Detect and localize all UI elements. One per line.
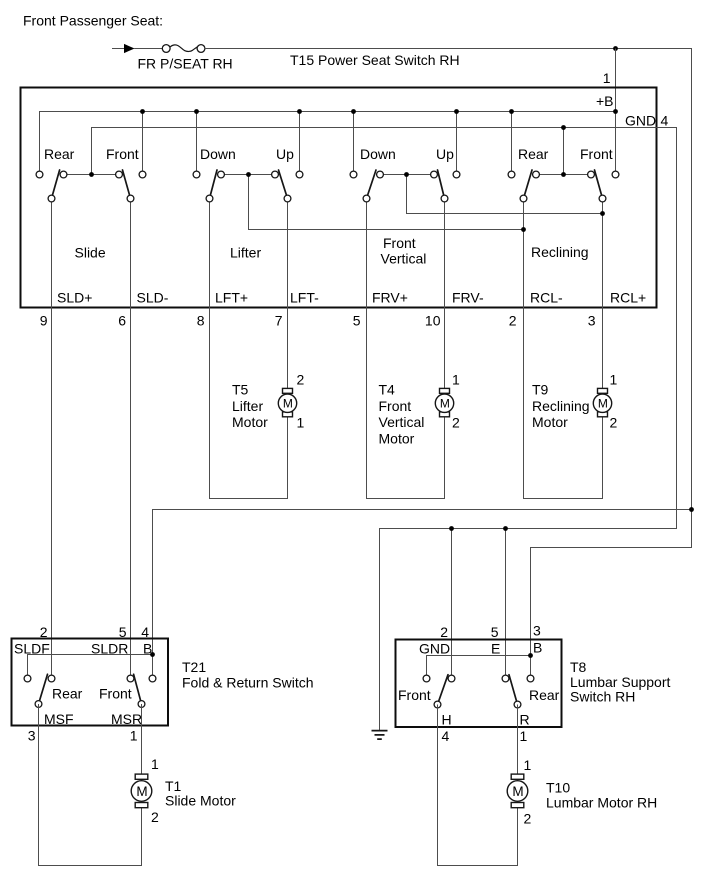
junction: T21 B bus to pin 4 wire (150, 652, 155, 657)
svg-text:Front: Front (106, 146, 139, 162)
svg-text:3: 3 (588, 313, 596, 329)
wire: FRV- pin 10 to front vertical motor top (444, 199, 446, 389)
wire: +B rail from fuse to right edge, down right side, to T8 pin 3 B (205, 49, 692, 676)
slide switch contacts and levers (36, 170, 146, 202)
wire: battery feed from arrow to fuse (112, 48, 162, 50)
switch T21 outline box (12, 639, 169, 726)
svg-text:MSR: MSR (111, 711, 142, 727)
svg-text:9: 9 (40, 313, 48, 329)
svg-text:Up: Up (276, 146, 294, 162)
svg-text:Lumbar Motor RH: Lumbar Motor RH (546, 795, 657, 811)
svg-text:M: M (512, 784, 523, 799)
junction: tap on +B right rail (689, 507, 694, 512)
svg-text:Rear: Rear (529, 687, 560, 703)
wire: T8 internal B bus (427, 656, 531, 676)
svg-text:RCL+: RCL+ (610, 290, 646, 306)
svg-text:FRV+: FRV+ (372, 290, 408, 306)
svg-text:2: 2 (452, 415, 460, 431)
svg-text:T9: T9 (532, 382, 549, 398)
wire: reclining Rear contact feeder (511, 112, 513, 175)
svg-text:2: 2 (524, 811, 532, 827)
svg-text:FR P/SEAT RH: FR P/SEAT RH (138, 56, 233, 72)
junction: GND line to T8 pin 5 (503, 526, 508, 531)
svg-text:2: 2 (40, 624, 48, 640)
ground symbol (372, 731, 388, 740)
motor T1 Slide Motor (131, 774, 152, 808)
fuse FR P/SEAT RH (162, 45, 205, 53)
svg-text:Down: Down (360, 146, 396, 162)
svg-text:LFT+: LFT+ (215, 290, 248, 306)
svg-text:4: 4 (661, 112, 669, 128)
switch T8 outline box (396, 640, 562, 728)
svg-text:Front: Front (99, 686, 132, 702)
svg-text:Slide: Slide (75, 245, 106, 261)
svg-text:Front Passenger Seat:: Front Passenger Seat: (23, 13, 163, 29)
svg-text:E: E (491, 641, 500, 657)
wire: lifter common link to RCL- node (249, 175, 524, 230)
svg-text:Front: Front (580, 146, 613, 162)
reclining switch contacts and levers (508, 170, 619, 202)
front vertical switch contacts and levers (350, 170, 460, 202)
svg-text:Slide Motor: Slide Motor (165, 793, 236, 809)
wire: SLD- to pin 6 down to T21 SLDR (130, 199, 132, 676)
wire: lifter switch common bar (221, 174, 275, 176)
wire: front vertical switch common bar (380, 174, 434, 176)
wire: slide switch common bar (64, 174, 120, 176)
svg-text:H: H (442, 712, 452, 728)
motor T4 Front Vertical Motor (435, 388, 453, 416)
svg-text:T15 Power Seat Switch RH: T15 Power Seat Switch RH (290, 52, 460, 68)
wire: FRV+ pin 5 loop to front vertical motor bottom (367, 199, 445, 499)
svg-text:1: 1 (603, 70, 611, 86)
motor T9 Reclining Motor (593, 388, 611, 416)
svg-text:Motor: Motor (532, 414, 568, 430)
wire: front vertical Up contact feeder (456, 112, 458, 175)
svg-text:Motor: Motor (379, 431, 415, 447)
svg-text:GND: GND (419, 641, 450, 657)
svg-text:Rear: Rear (44, 146, 75, 162)
wire: reclining switch common bar (536, 174, 591, 176)
svg-text:1: 1 (151, 756, 159, 772)
svg-text:SLD+: SLD+ (57, 290, 92, 306)
T8 switch contacts and levers (423, 675, 534, 708)
svg-text:2: 2 (509, 313, 517, 329)
svg-text:1: 1 (297, 415, 305, 431)
svg-text:2: 2 (151, 809, 159, 825)
svg-text:GND: GND (625, 112, 656, 128)
svg-text:SLD-: SLD- (137, 290, 169, 306)
svg-text:Down: Down (200, 146, 236, 162)
svg-text:5: 5 (491, 624, 499, 640)
svg-text:MSF: MSF (44, 711, 74, 727)
svg-text:T5: T5 (232, 382, 249, 398)
junction: front vertical link on RCL+ wire (600, 211, 605, 216)
svg-text:R: R (520, 712, 530, 728)
svg-text:B: B (533, 640, 542, 656)
svg-text:1: 1 (610, 372, 618, 388)
svg-text:Lifter: Lifter (232, 398, 263, 414)
wire: MSF pin 3 loop to slide motor bottom (39, 704, 142, 866)
wire: +B feed down into switch (pin 1) (615, 49, 617, 175)
junction: +B tap on fuse line (613, 46, 618, 51)
node GND bus: exits box right edge, down right side, across to ground drop (92, 128, 677, 731)
svg-text:LFT-: LFT- (290, 290, 319, 306)
svg-text:8: 8 (197, 313, 205, 329)
arrow: power source direction (124, 44, 135, 53)
svg-text:T4: T4 (379, 382, 396, 398)
wire: SLD+ to pin 9 down to T21 SLDF (51, 199, 53, 676)
svg-text:Fold & Return Switch: Fold & Return Switch (182, 675, 314, 691)
wire: H pin 4 loop to lumbar motor bottom (438, 705, 518, 866)
switch T15 outline box (21, 88, 657, 308)
T21 switch contacts and levers (24, 674, 156, 707)
svg-text:7: 7 (275, 313, 283, 329)
svg-text:4: 4 (442, 728, 450, 744)
wire: GND to T8 pin 2 (451, 529, 453, 676)
svg-text:Vertical: Vertical (379, 414, 425, 430)
svg-text:3: 3 (533, 623, 541, 639)
wire: T21 internal B bus (28, 655, 153, 676)
wire: RCL- pin 2 loop to reclining motor bottom (524, 199, 603, 499)
svg-text:Front: Front (383, 235, 416, 251)
svg-text:Switch RH: Switch RH (570, 689, 635, 705)
junction: GND bus to reclining common (561, 125, 566, 130)
svg-text:1: 1 (130, 728, 138, 744)
svg-text:M: M (136, 784, 147, 799)
svg-text:Reclining: Reclining (532, 398, 590, 414)
wire: lifter Up contact feeder (299, 112, 301, 175)
wire: B feed to T21 pin 4 (153, 510, 692, 676)
svg-text:M: M (598, 397, 608, 411)
svg-text:5: 5 (353, 313, 361, 329)
wire: reclining common feeder from GND bus (563, 128, 565, 175)
svg-text:Front: Front (398, 687, 431, 703)
svg-text:2: 2 (610, 415, 618, 431)
node +B bus (40, 112, 616, 175)
wire: slide Front contact feeder (142, 112, 144, 175)
svg-text:3: 3 (28, 728, 36, 744)
wire: LFT- pin 7 to lifter motor top (287, 199, 289, 389)
lifter switch contacts and levers (193, 170, 303, 202)
svg-text:1: 1 (452, 372, 460, 388)
svg-text:1: 1 (520, 728, 528, 744)
wire: RCL+ pin 3 to reclining motor top (602, 199, 604, 389)
svg-text:2: 2 (440, 624, 448, 640)
wire: GND to T8 pin 5 E (505, 529, 507, 676)
svg-text:M: M (440, 397, 450, 411)
wire: LFT+ pin 8 loop to lifter motor bottom (210, 199, 288, 499)
svg-text:Front: Front (379, 398, 412, 414)
svg-text:Reclining: Reclining (531, 244, 589, 260)
svg-text:T21: T21 (182, 659, 206, 675)
motor T5 Lifter Motor (278, 388, 296, 416)
svg-text:FRV-: FRV- (452, 290, 484, 306)
wire: MSR pin 1 to slide motor top (141, 704, 143, 774)
svg-text:M: M (283, 397, 293, 411)
svg-text:2: 2 (297, 372, 305, 388)
svg-text:5: 5 (119, 624, 127, 640)
svg-text:Rear: Rear (518, 146, 549, 162)
svg-text:+B: +B (596, 93, 614, 109)
wire: R pin 1 to lumbar motor top (517, 705, 519, 775)
svg-text:Up: Up (436, 146, 454, 162)
svg-text:T8: T8 (570, 659, 587, 675)
wire: lifter Down contact feeder (196, 112, 198, 175)
junction: T8 B bus to pin 3 wire (528, 653, 533, 658)
junction: GND line to T8 pin 2 (449, 526, 454, 531)
svg-text:Lifter: Lifter (230, 245, 261, 261)
svg-text:Vertical: Vertical (381, 251, 427, 267)
wire: front vertical common link to RCL+ node (407, 175, 603, 214)
svg-text:Motor: Motor (232, 414, 268, 430)
junction: lifter link on RCL- wire (521, 227, 526, 232)
motor T10 Lumbar Motor RH (507, 774, 528, 808)
svg-text:RCL-: RCL- (530, 290, 563, 306)
svg-text:1: 1 (524, 757, 532, 773)
svg-text:10: 10 (425, 313, 441, 329)
svg-text:4: 4 (141, 624, 149, 640)
wire: front vertical Down contact feeder (353, 112, 355, 175)
svg-text:T10: T10 (546, 780, 570, 796)
svg-text:6: 6 (118, 313, 126, 329)
svg-text:Rear: Rear (52, 686, 83, 702)
junction dots on +B bus (140, 109, 145, 114)
